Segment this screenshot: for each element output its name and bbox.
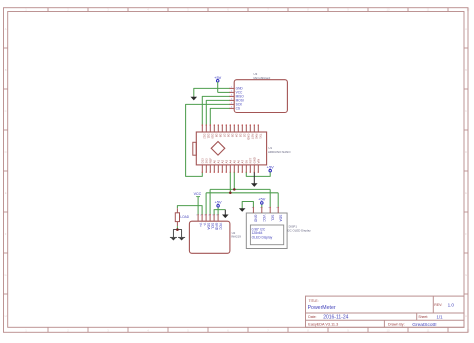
svg-text:SCL: SCL xyxy=(270,215,274,222)
svg-text:SDA: SDA xyxy=(278,215,282,223)
svg-text:REV:: REV: xyxy=(434,303,442,307)
svg-text:D11: D11 xyxy=(206,134,210,139)
svg-text:E: E xyxy=(465,191,467,195)
svg-text:MicroSDcard: MicroSDcard xyxy=(254,76,271,80)
svg-text:D9: D9 xyxy=(214,134,218,138)
svg-text:D8: D8 xyxy=(218,134,222,138)
svg-text:10: 10 xyxy=(387,8,390,12)
svg-text:OLED Display: OLED Display xyxy=(252,236,273,240)
svg-text:GreatScott!: GreatScott! xyxy=(412,322,436,328)
svg-text:Sheet:: Sheet: xyxy=(418,315,428,319)
svg-text:A: A xyxy=(5,27,7,31)
svg-text:SDA: SDA xyxy=(206,223,210,231)
svg-text:D4: D4 xyxy=(234,134,238,138)
svg-text:TITLE:: TITLE: xyxy=(309,299,319,303)
svg-text:D12: D12 xyxy=(202,134,206,140)
svg-text:C: C xyxy=(465,109,467,113)
svg-text:D6: D6 xyxy=(226,134,230,138)
svg-text:D: D xyxy=(5,150,7,154)
svg-text:2016-11-24: 2016-11-24 xyxy=(323,315,348,321)
svg-text:128x64: 128x64 xyxy=(252,231,263,235)
svg-text:TX1: TX1 xyxy=(258,134,262,140)
svg-text:RST: RST xyxy=(250,134,254,140)
svg-text:G: G xyxy=(5,273,7,277)
svg-text:Date:: Date: xyxy=(308,315,316,319)
svg-text:EasyEDA V3.11.3: EasyEDA V3.11.3 xyxy=(308,323,338,327)
svg-text:D2: D2 xyxy=(242,134,246,138)
svg-text:GND: GND xyxy=(246,134,250,140)
svg-text:V-: V- xyxy=(202,223,206,226)
svg-text:10: 10 xyxy=(387,328,390,332)
svg-text:PowerMeter: PowerMeter xyxy=(308,305,336,311)
svg-text:C: C xyxy=(5,109,7,113)
svg-text:B: B xyxy=(5,68,7,72)
svg-text:+5V: +5V xyxy=(267,164,274,169)
svg-text:12: 12 xyxy=(467,8,470,12)
svg-text:V+: V+ xyxy=(198,223,202,227)
svg-text:+5V: +5V xyxy=(215,199,222,204)
svg-text:INA219: INA219 xyxy=(231,235,241,239)
svg-text:1/1: 1/1 xyxy=(437,315,444,320)
svg-text:RX0: RX0 xyxy=(254,134,258,140)
svg-text:H: H xyxy=(5,314,7,318)
svg-text:GND: GND xyxy=(254,215,258,223)
svg-text:E: E xyxy=(5,191,7,195)
svg-text:G: G xyxy=(465,273,467,277)
svg-text:Drawn By:: Drawn By: xyxy=(388,323,405,327)
svg-text:11: 11 xyxy=(427,8,430,12)
svg-text:D10: D10 xyxy=(210,134,214,140)
svg-text:VCC: VCC xyxy=(218,223,222,231)
svg-text:1.0: 1.0 xyxy=(448,303,455,308)
svg-text:I2C OLED Display: I2C OLED Display xyxy=(287,229,311,233)
svg-text:CS: CS xyxy=(236,107,240,111)
svg-text:B: B xyxy=(465,68,467,72)
svg-text:D5: D5 xyxy=(230,134,234,138)
svg-text:VIN: VIN xyxy=(256,159,260,164)
svg-text:D: D xyxy=(465,150,467,154)
svg-text:D7: D7 xyxy=(222,134,226,138)
svg-text:+5V: +5V xyxy=(258,196,265,201)
svg-text:H: H xyxy=(465,314,467,318)
svg-text:LOAD: LOAD xyxy=(180,215,189,219)
svg-text:ARDUINO NANO: ARDUINO NANO xyxy=(268,150,291,154)
svg-text:11: 11 xyxy=(427,328,430,332)
svg-text:VCC: VCC xyxy=(262,215,266,223)
svg-text:12: 12 xyxy=(467,328,470,332)
svg-text:D3: D3 xyxy=(238,134,242,138)
svg-text:GND: GND xyxy=(214,223,218,231)
svg-text:VCC: VCC xyxy=(194,192,202,196)
svg-text:SCL: SCL xyxy=(210,223,214,230)
svg-text:A: A xyxy=(465,27,467,31)
